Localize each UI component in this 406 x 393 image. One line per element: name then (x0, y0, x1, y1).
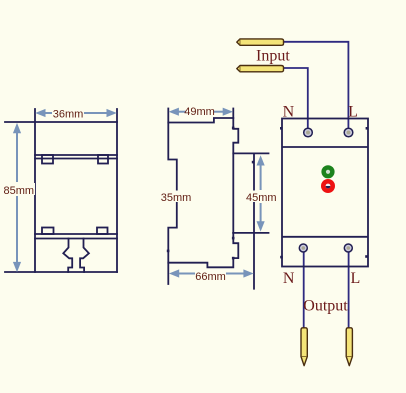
svg-text:Output: Output (303, 297, 348, 314)
svg-text:Input: Input (256, 48, 290, 65)
svg-text:36mm: 36mm (53, 108, 84, 120)
svg-text:35mm: 35mm (161, 192, 192, 204)
svg-text:45mm: 45mm (246, 192, 277, 204)
svg-text:L: L (348, 104, 358, 121)
svg-text:L: L (351, 270, 361, 287)
svg-text:85mm: 85mm (4, 185, 35, 197)
svg-text:N: N (283, 270, 295, 287)
svg-text:N: N (283, 104, 295, 121)
svg-text:66mm: 66mm (195, 271, 226, 283)
svg-text:49mm: 49mm (184, 106, 215, 118)
